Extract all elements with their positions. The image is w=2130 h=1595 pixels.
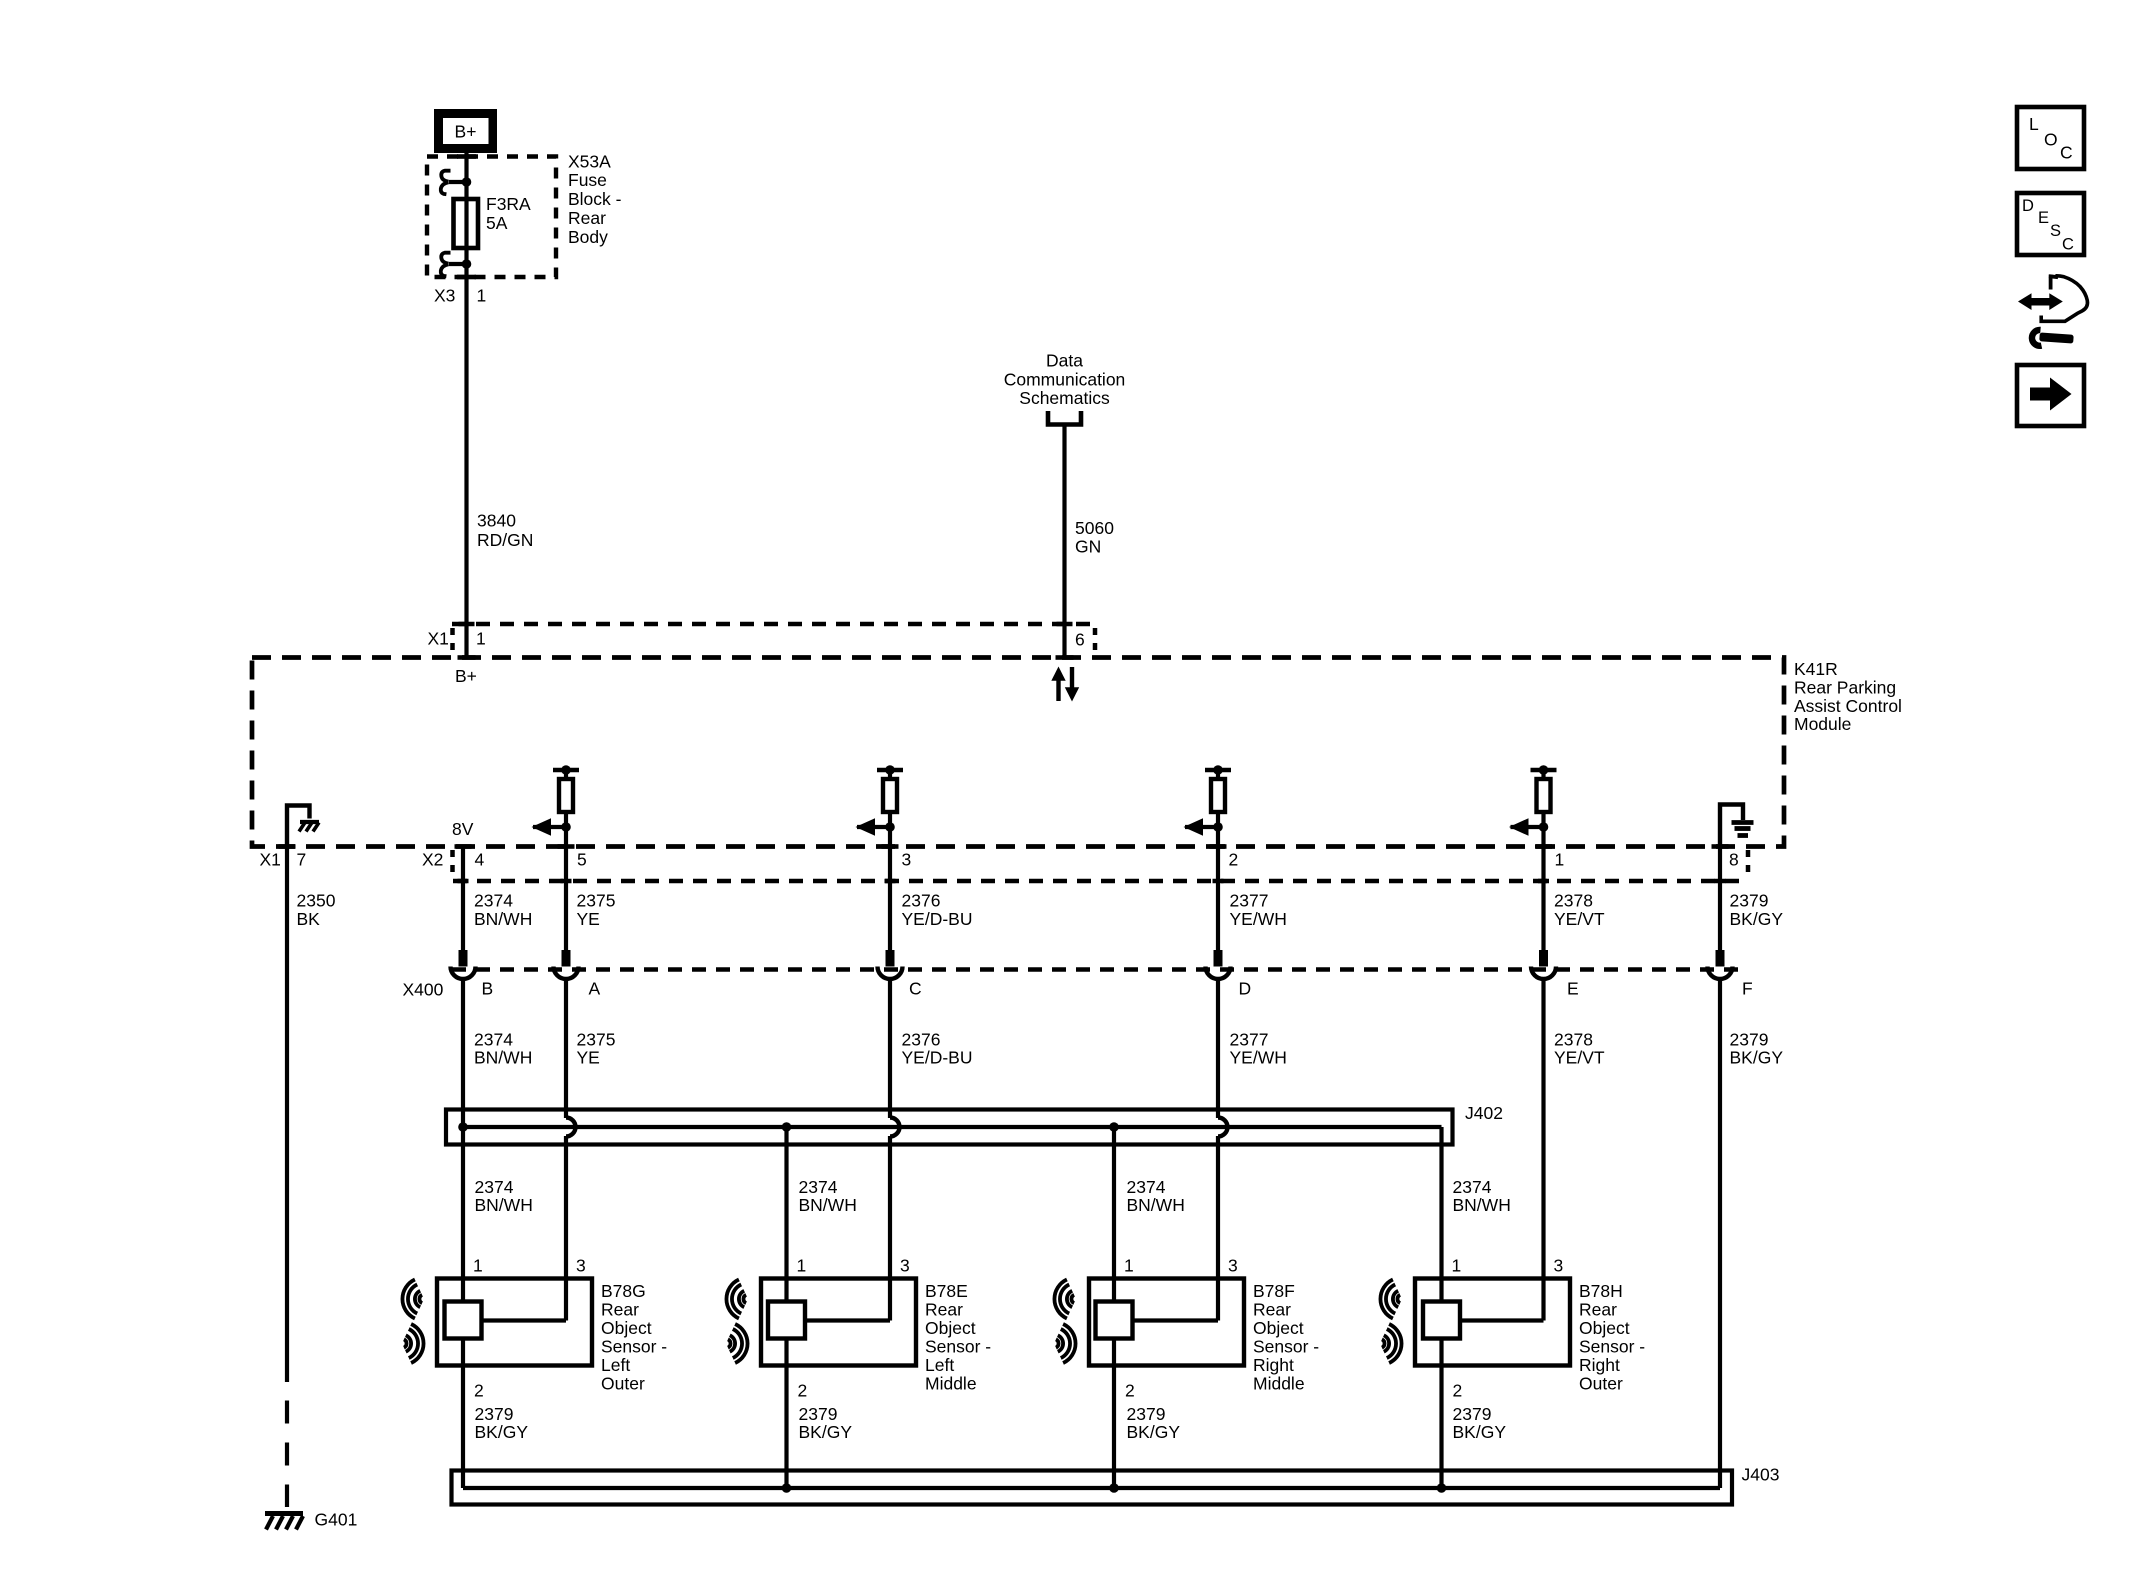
svg-text:2379: 2379 [1453, 1404, 1492, 1424]
svg-text:2374: 2374 [474, 1030, 513, 1050]
svg-text:BK/GY: BK/GY [1453, 1422, 1507, 1442]
svg-text:YE/WH: YE/WH [1230, 1048, 1287, 1068]
svg-text:3: 3 [900, 1256, 910, 1276]
svg-text:L: L [2029, 114, 2039, 134]
svg-text:Rear: Rear [925, 1300, 963, 1320]
svg-text:Body: Body [568, 227, 608, 247]
svg-text:B+: B+ [455, 121, 477, 141]
svg-text:RD/GN: RD/GN [477, 530, 533, 550]
svg-text:BN/WH: BN/WH [474, 1048, 532, 1068]
svg-text:F3RA: F3RA [486, 194, 531, 214]
svg-text:Object: Object [925, 1318, 976, 1338]
svg-text:2: 2 [1229, 849, 1239, 869]
svg-text:YE/D-BU: YE/D-BU [902, 1048, 973, 1068]
svg-text:G401: G401 [315, 1510, 358, 1530]
svg-text:Sensor -: Sensor - [1579, 1337, 1645, 1357]
svg-text:X1: X1 [428, 629, 449, 649]
svg-text:1: 1 [1124, 1256, 1134, 1276]
svg-text:YE/D-BU: YE/D-BU [902, 909, 973, 929]
svg-text:Object: Object [1579, 1318, 1630, 1338]
svg-text:8V: 8V [452, 819, 474, 839]
svg-text:X3: X3 [434, 285, 455, 305]
svg-text:B78E: B78E [925, 1281, 968, 1301]
svg-text:Schematics: Schematics [1019, 388, 1110, 408]
svg-text:BN/WH: BN/WH [474, 909, 532, 929]
svg-text:Rear: Rear [1253, 1300, 1291, 1320]
svg-text:C: C [909, 979, 922, 999]
svg-text:Middle: Middle [1253, 1374, 1305, 1394]
svg-text:Outer: Outer [601, 1374, 645, 1394]
svg-text:Rear: Rear [568, 208, 606, 228]
svg-text:YE: YE [577, 1048, 600, 1068]
svg-text:E: E [1567, 979, 1579, 999]
svg-text:B78G: B78G [601, 1281, 646, 1301]
svg-text:BN/WH: BN/WH [1127, 1195, 1185, 1215]
svg-text:2375: 2375 [577, 891, 616, 911]
svg-text:3: 3 [1228, 1256, 1238, 1276]
svg-text:Communication: Communication [1004, 369, 1126, 389]
svg-text:4: 4 [475, 849, 485, 869]
svg-text:X1: X1 [260, 849, 281, 869]
svg-text:Object: Object [1253, 1318, 1304, 1338]
svg-text:5060: 5060 [1075, 518, 1114, 538]
svg-text:B78H: B78H [1579, 1281, 1623, 1301]
svg-text:2376: 2376 [902, 1030, 941, 1050]
svg-text:Assist Control: Assist Control [1794, 696, 1902, 716]
svg-text:BN/WH: BN/WH [475, 1195, 533, 1215]
svg-text:6: 6 [1075, 630, 1085, 650]
svg-text:D: D [1239, 979, 1252, 999]
svg-text:Left: Left [925, 1355, 954, 1375]
svg-text:F: F [1742, 979, 1753, 999]
svg-text:2374: 2374 [799, 1177, 838, 1197]
svg-text:Rear: Rear [601, 1300, 639, 1320]
svg-text:X2: X2 [422, 849, 443, 869]
svg-text:2: 2 [1125, 1381, 1135, 1401]
svg-text:K41R: K41R [1794, 659, 1838, 679]
svg-text:2379: 2379 [475, 1404, 514, 1424]
svg-text:D: D [2022, 197, 2034, 215]
svg-text:A: A [589, 979, 601, 999]
svg-text:2377: 2377 [1230, 891, 1269, 911]
svg-text:2374: 2374 [1127, 1177, 1166, 1197]
svg-text:Fuse: Fuse [568, 170, 607, 190]
svg-text:Rear Parking: Rear Parking [1794, 677, 1896, 697]
svg-text:1: 1 [476, 629, 486, 649]
svg-text:1: 1 [477, 285, 487, 305]
svg-text:2: 2 [474, 1381, 484, 1401]
svg-text:Right: Right [1579, 1355, 1620, 1375]
svg-text:5A: 5A [486, 213, 508, 233]
svg-text:2: 2 [798, 1381, 808, 1401]
svg-text:7: 7 [297, 849, 307, 869]
svg-text:BN/WH: BN/WH [799, 1195, 857, 1215]
svg-text:BK/GY: BK/GY [799, 1422, 853, 1442]
svg-text:2375: 2375 [577, 1030, 616, 1050]
svg-text:1: 1 [473, 1256, 483, 1276]
svg-text:Middle: Middle [925, 1374, 977, 1394]
svg-text:B78F: B78F [1253, 1281, 1295, 1301]
svg-text:YE/WH: YE/WH [1230, 909, 1287, 929]
svg-text:2379: 2379 [1730, 891, 1769, 911]
svg-text:2374: 2374 [475, 1177, 514, 1197]
svg-text:1: 1 [1452, 1256, 1462, 1276]
svg-text:2374: 2374 [1453, 1177, 1492, 1197]
svg-text:2377: 2377 [1230, 1030, 1269, 1050]
svg-text:Sensor -: Sensor - [1253, 1337, 1319, 1357]
svg-text:J402: J402 [1465, 1103, 1503, 1123]
svg-text:2379: 2379 [1127, 1404, 1166, 1424]
svg-text:E: E [2038, 209, 2049, 227]
svg-text:2: 2 [1453, 1381, 1463, 1401]
svg-text:Block -: Block - [568, 189, 622, 209]
svg-text:B: B [482, 979, 494, 999]
svg-text:3: 3 [576, 1256, 586, 1276]
svg-text:3840: 3840 [477, 511, 516, 531]
svg-text:1: 1 [797, 1256, 807, 1276]
svg-text:3: 3 [1554, 1256, 1564, 1276]
svg-text:2376: 2376 [902, 891, 941, 911]
svg-text:X53A: X53A [568, 151, 611, 171]
svg-text:Outer: Outer [1579, 1374, 1623, 1394]
svg-text:2378: 2378 [1554, 1030, 1593, 1050]
svg-text:2379: 2379 [799, 1404, 838, 1424]
svg-text:BK/GY: BK/GY [475, 1422, 529, 1442]
svg-text:C: C [2062, 236, 2074, 254]
svg-text:5: 5 [577, 849, 587, 869]
svg-text:3: 3 [902, 849, 912, 869]
svg-text:Sensor -: Sensor - [601, 1337, 667, 1357]
svg-text:Module: Module [1794, 714, 1851, 734]
svg-text:BK: BK [297, 909, 321, 929]
svg-text:S: S [2050, 222, 2061, 240]
svg-text:Rear: Rear [1579, 1300, 1617, 1320]
svg-text:YE: YE [577, 909, 600, 929]
svg-text:YE/VT: YE/VT [1554, 909, 1605, 929]
svg-text:BK/GY: BK/GY [1730, 1048, 1784, 1068]
svg-text:C: C [2060, 143, 2073, 163]
svg-text:BK/GY: BK/GY [1730, 909, 1784, 929]
svg-text:2350: 2350 [297, 891, 336, 911]
svg-text:BK/GY: BK/GY [1127, 1422, 1181, 1442]
svg-text:2378: 2378 [1554, 891, 1593, 911]
svg-text:Left: Left [601, 1355, 630, 1375]
svg-text:Sensor -: Sensor - [925, 1337, 991, 1357]
svg-text:2379: 2379 [1730, 1030, 1769, 1050]
svg-text:O: O [2044, 130, 2058, 150]
svg-text:Right: Right [1253, 1355, 1294, 1375]
svg-text:1: 1 [1555, 849, 1565, 869]
svg-text:J403: J403 [1742, 1465, 1780, 1485]
svg-text:Data: Data [1046, 350, 1083, 370]
svg-text:B+: B+ [455, 666, 477, 686]
svg-text:8: 8 [1729, 849, 1739, 869]
svg-text:X400: X400 [403, 980, 444, 1000]
svg-text:Object: Object [601, 1318, 652, 1338]
svg-text:BN/WH: BN/WH [1453, 1195, 1511, 1215]
svg-text:YE/VT: YE/VT [1554, 1048, 1605, 1068]
svg-text:2374: 2374 [474, 891, 513, 911]
svg-text:GN: GN [1075, 537, 1101, 557]
